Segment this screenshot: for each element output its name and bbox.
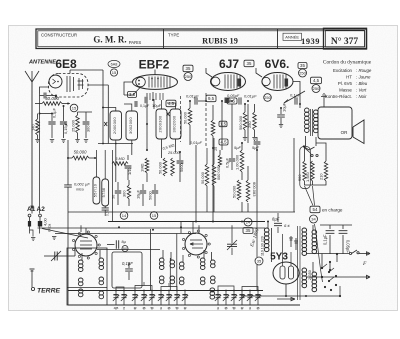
tube V1 triode circle — [49, 75, 62, 88]
wire main bus horizontal mid — [68, 211, 295, 213]
output transformer core — [310, 109, 312, 136]
capacitor C23 0,05uF psu — [342, 225, 344, 229]
wire selector down diagonals — [305, 186, 314, 206]
ground mark A1 — [31, 238, 35, 241]
wire bus y235 — [42, 229, 88, 239]
shelf line box1 — [67, 287, 107, 289]
dial cord curve — [315, 224, 323, 282]
wire vertical 103 — [102, 70, 104, 144]
wire psu links — [321, 258, 323, 268]
ground symbol terre — [31, 270, 33, 287]
resistor R14 100.000 — [240, 150, 244, 172]
wire EBF2 left pin — [124, 82, 133, 95]
ref circle 6V6 — [299, 69, 307, 77]
header divider annee — [277, 29, 279, 49]
wire PT col2 — [312, 225, 314, 230]
wire 6E8 plate to IF1 — [70, 69, 103, 71]
switch mains — [306, 253, 349, 255]
tube 6V6 plate blob — [285, 79, 289, 87]
wire EBF2 pin stubs — [149, 93, 151, 100]
wire EBF2 diag to mid — [124, 87, 141, 95]
capacitor C22 0,1uF psu — [329, 225, 331, 229]
trimmer T8 — [176, 291, 178, 306]
wire OT down — [303, 136, 306, 146]
psu terminal stubs — [321, 254, 323, 259]
power transformer secondary col2 — [312, 230, 317, 234]
antenna symbol — [25, 71, 32, 82]
wire main bus horizontal upper — [108, 221, 265, 223]
resistor R16 600.000 v — [246, 180, 250, 202]
resistor R15 50.000 v — [237, 180, 241, 200]
trimmer T5 — [151, 291, 153, 306]
wire IF1 bottom bus — [98, 143, 133, 145]
ref box 54 en charge — [310, 206, 320, 213]
trimmer IF2 x — [167, 112, 170, 116]
arrow bottom — [291, 298, 295, 301]
ref circle EBF2 right — [184, 73, 192, 81]
IF1 primary winding L2 — [110, 111, 122, 140]
ref box 1,5 — [219, 121, 227, 127]
ref circle 35 bottom — [255, 257, 263, 265]
wire A terminals down — [29, 226, 31, 234]
ground marks column bottoms — [35, 140, 39, 143]
ground mark A row right — [52, 237, 56, 240]
resistor R2 140 — [37, 114, 39, 120]
wire mains 2 — [306, 276, 370, 278]
arrow mains 1 — [367, 252, 371, 255]
wire IF2 top stubs — [161, 100, 163, 109]
wire PT primary top — [267, 222, 269, 229]
wire osc coils — [203, 250, 205, 258]
osc coil L22 — [210, 288, 215, 292]
output transformer primary — [305, 108, 310, 112]
oscillator coil box L7 — [102, 179, 109, 206]
wire EBF2 top cap — [154, 70, 156, 75]
wire grid lead down to A2 — [39, 94, 41, 214]
wire antenna to switch — [31, 208, 33, 214]
wire 6E8 to coupling — [88, 84, 108, 86]
wire tube V1b up — [85, 228, 87, 234]
tube 6J7 plate blob — [238, 79, 242, 87]
capacitor C1 0,1uF — [51, 114, 53, 122]
wire 6V6 grid — [256, 68, 262, 77]
ground marks 6V6 cluster — [243, 138, 247, 141]
tube V1c triode section circle — [185, 233, 207, 255]
wire psu top bus — [320, 224, 352, 226]
header divider type — [163, 29, 165, 49]
trimmer T12 — [233, 291, 235, 306]
wire 6E8 grid cap — [40, 87, 50, 94]
ref box 9,5 under 6J7 — [206, 95, 216, 102]
wire CV1 to tube — [63, 255, 75, 257]
tube V4 6V6 envelope — [262, 73, 293, 91]
ref box mid 4,5 — [227, 98, 237, 104]
tube V1 6E8 envelope dashed — [49, 74, 89, 98]
choke L15 — [159, 276, 164, 280]
wire right of osc coils — [112, 150, 114, 222]
wire right vertical bus — [293, 138, 295, 212]
ref circle 15 left — [70, 104, 78, 112]
wire selector right up — [316, 143, 326, 161]
tuning coil L13 — [99, 291, 104, 295]
wire antenna lead — [31, 82, 33, 208]
wire bus y229.6 — [55, 233, 196, 235]
speaker field box — [318, 107, 352, 139]
resistor R24 100.000 6J7 — [212, 164, 216, 186]
terminal dots mains — [321, 267, 323, 269]
speaker cone — [353, 120, 364, 144]
terminal A1 — [28, 214, 31, 217]
IF1 secondary winding L3 — [126, 111, 138, 140]
trimmer T10 — [217, 291, 219, 306]
ref alternate (6A8) — [108, 60, 120, 67]
ref box 3,5 left EBF2 — [128, 92, 137, 98]
power transformer HV winding — [302, 228, 307, 232]
capacitor C11 mid — [179, 152, 181, 160]
power transformer core — [271, 228, 273, 262]
capacitor padding 6E8 — [44, 93, 46, 99]
header title box — [36, 29, 367, 49]
resistor R21 210 selector — [324, 161, 327, 181]
wire long vertical left — [67, 140, 69, 185]
capacitor C14 10uF — [142, 184, 144, 190]
wire 5Y3 bottom — [286, 284, 306, 296]
variable capacitor CV2 — [231, 225, 233, 243]
IF2 secondary winding L5 — [170, 109, 181, 139]
ref circle 250 volume — [312, 85, 320, 93]
resistor antenna series — [29, 217, 31, 222]
resistor R5 1 Mohm — [145, 158, 149, 173]
trimmer T1 — [115, 291, 117, 306]
resistor R19 500 selector — [303, 161, 306, 181]
tuning coil L9 — [78, 278, 83, 282]
tube V1 grid bars — [66, 76, 68, 92]
resistor R3 25.000 — [77, 112, 79, 115]
header number box — [324, 28, 367, 49]
trimmer T2 — [123, 291, 125, 306]
resistor R8 vertical a — [163, 158, 167, 176]
ref box 4,5 volume — [311, 77, 322, 84]
socket marks 5Y3 right — [290, 236, 292, 247]
ref box 4,5 under EBF2 — [166, 100, 176, 107]
trimmer T7 — [168, 291, 170, 306]
osc coil L21 — [211, 260, 216, 264]
wire osc coil tops — [95, 150, 97, 177]
wire top link 77-92 — [78, 111, 93, 113]
resistor R13 15 left — [219, 150, 221, 155]
selector bobbin outline — [300, 147, 311, 189]
IF2 primary winding L4 — [156, 109, 167, 139]
selector switch contacts — [311, 154, 313, 156]
wire 6J7 grid — [206, 68, 212, 77]
ref circle 34 — [310, 215, 318, 223]
tube V2 grid bars — [148, 77, 150, 88]
wire mid vertical c — [169, 258, 171, 291]
oscillator coil box L6 — [93, 177, 100, 204]
capacitor C2 0,15uF — [63, 106, 65, 121]
padder cap below osc coils — [102, 208, 109, 210]
power transformer core right — [299, 226, 301, 300]
header annee small box — [283, 33, 302, 40]
resistor R10 500.000 — [188, 108, 192, 125]
capacitor C19 0,001uF mica — [64, 185, 72, 187]
ref circle 15 — [110, 69, 117, 76]
wire coil links — [81, 253, 83, 260]
terminal A2 — [39, 214, 42, 217]
tuning coil L12 — [99, 277, 104, 281]
wire 5Y3 plates — [282, 234, 284, 266]
resistor R17 250 6V6 — [253, 112, 257, 130]
capacitor C13 50 — [117, 182, 119, 190]
capacitor C18 10uF 6V6 — [280, 108, 282, 114]
ref box EBF2 right — [183, 65, 193, 72]
potentiometer volume diagonal — [284, 91, 305, 103]
capacitor C10 1/10uF — [127, 155, 129, 160]
capacitor C3 300 — [85, 112, 87, 121]
wire 257 down — [256, 212, 258, 257]
wire IF1 top stubs — [103, 108, 116, 112]
trimmer T14 — [249, 291, 251, 306]
choke L17 — [170, 276, 175, 280]
wire mid vertical d — [176, 234, 178, 291]
trimmer IF1 x — [104, 122, 107, 126]
ref circle 15 bus — [150, 212, 158, 220]
ground stub above speaker box — [323, 97, 325, 107]
resistor R20 1.580 selector — [311, 161, 314, 181]
shield partition dashed — [180, 96, 182, 142]
output transformer secondary — [314, 110, 319, 114]
wire 6V6 plate to OT — [293, 82, 300, 109]
psu plug contact cluster — [321, 267, 323, 269]
trimmer T6 — [160, 291, 162, 306]
wire bus y227 — [38, 227, 266, 229]
resistor R11 300 — [127, 185, 130, 199]
wire band bus bottom — [68, 304, 300, 306]
capacitor C16 0,5uF — [231, 152, 233, 158]
wire 6E8 plate — [69, 70, 71, 74]
ref circle mid 250 — [264, 94, 272, 102]
tube V2 EBF2 envelope — [133, 75, 178, 90]
tuning coil L11 — [99, 258, 104, 262]
tube V5 5Y3 envelope — [273, 262, 299, 284]
capacitor C15 5000b — [154, 184, 156, 190]
trimmer T4 — [143, 291, 145, 306]
arrow mains 2 — [367, 275, 371, 278]
wire y249 link — [97, 249, 160, 251]
ref circle 14 bus — [120, 212, 128, 220]
trimmer T15 — [257, 291, 259, 306]
resistor R9 vertical b — [171, 158, 175, 176]
coil column left of V1c — [179, 262, 184, 266]
trimmer T11 — [225, 291, 227, 306]
wire vertical 108.3 — [107, 85, 109, 144]
wire chokes — [162, 250, 164, 258]
tuning coil L8 — [78, 260, 83, 264]
ref box 6J7 — [244, 60, 254, 66]
variable capacitor CV1 — [49, 255, 63, 257]
coil shield box left — [67, 248, 107, 305]
ref circle 24 bottom — [244, 218, 252, 226]
power transformer winding 2 — [302, 268, 307, 272]
ref box 6V6 — [298, 63, 307, 69]
wire selector bottom — [305, 181, 327, 185]
tube V1b hexode section circle — [75, 234, 97, 256]
label 4,5 bottom mid — [219, 139, 228, 145]
shield box 2 — [112, 252, 142, 288]
ref box 35 bottom2 — [243, 228, 253, 234]
wire 196 down to V1c — [192, 222, 194, 234]
resistor R23 50.000 6J7 plate — [205, 164, 209, 186]
wire trimmer bridges — [116, 287, 124, 291]
junction dots — [67, 103, 69, 105]
tuning coil L10 — [78, 289, 83, 293]
power transformer primary — [264, 228, 269, 232]
trimmer T13 — [241, 291, 243, 306]
terminal TERRE — [31, 287, 34, 290]
choke L14 — [159, 258, 164, 262]
resistor R12 1500 6J7 — [211, 120, 215, 136]
wire bus verticals — [115, 144, 117, 183]
tube V1 osc marks — [78, 78, 80, 90]
tube V3 6J7 envelope — [211, 73, 246, 91]
selector lever — [303, 147, 311, 154]
capacitor C20 8uF — [107, 244, 115, 246]
trimmer T9 — [184, 291, 186, 306]
wire mid vertical b — [150, 229, 152, 291]
wire band bus top — [68, 290, 263, 292]
trimmer T3 — [134, 291, 136, 306]
choke L16 — [170, 260, 175, 264]
osc coil L20 — [200, 258, 205, 262]
